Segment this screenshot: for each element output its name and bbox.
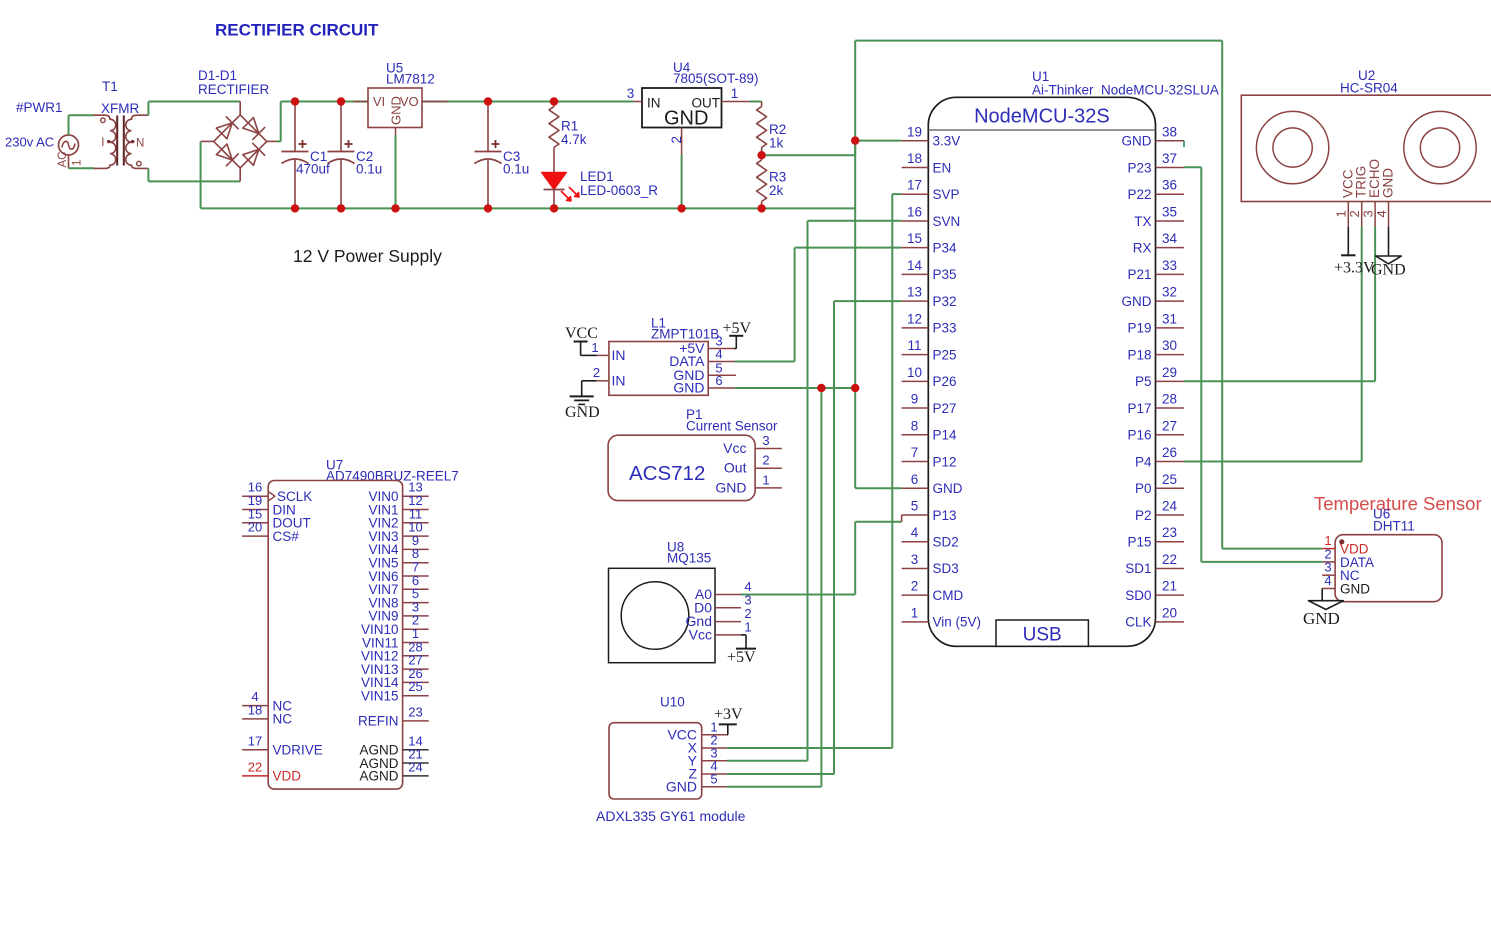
svg-text:P19: P19 (1127, 321, 1151, 336)
U1 pin 34 (RX) (1133, 231, 1184, 255)
U7 pin 22 (VDD) (242, 759, 301, 783)
svg-text:U10: U10 (660, 695, 685, 710)
wire: bridge output+ to top rail (277, 102, 295, 142)
svg-text:GND: GND (1371, 262, 1406, 279)
junction LED1 bottom (550, 204, 558, 212)
svg-text:22: 22 (1162, 552, 1177, 567)
svg-text:3: 3 (911, 552, 919, 567)
svg-text:22: 22 (248, 759, 262, 774)
temperature sensor U6 DHT11 labels (1373, 507, 1415, 534)
svg-text:16: 16 (907, 204, 922, 219)
svg-text:2k: 2k (769, 183, 784, 198)
svg-text:P4: P4 (1135, 454, 1152, 469)
junction C3 bottom (484, 204, 492, 212)
svg-text:P33: P33 (933, 321, 957, 336)
svg-text:XFMR: XFMR (101, 101, 139, 116)
svg-text:GND: GND (715, 479, 746, 495)
U1 pin 27 (P16) (1127, 418, 1184, 442)
wire: U10 Z to U1 P32 (pin13) (727, 301, 902, 774)
transformer T1 labels (101, 79, 139, 116)
gas sensor U8 MQ135 (609, 568, 752, 662)
U7 pin 15 (DOUT) (242, 506, 311, 530)
U1 pin 38 (GND) (1122, 124, 1185, 148)
U7 pin 10 (VIN3) (368, 520, 428, 544)
U7 pin 16 (SCLK) (242, 480, 312, 504)
svg-text:I: I (101, 137, 104, 149)
ADC U7 AD7490BRUZ-REEL7 labels (326, 458, 459, 484)
U7 pin 4 (NC) (242, 689, 292, 713)
junction U4 GND (677, 204, 685, 212)
svg-text:Vcc: Vcc (723, 440, 746, 456)
svg-text:4: 4 (1374, 210, 1389, 217)
svg-text:2: 2 (669, 136, 684, 144)
wire: U1 P23 (pin37) to DHT11 DATA (1184, 167, 1322, 562)
U1 pin 24 (P2) (1135, 498, 1184, 522)
U1 pin 31 (P19) (1127, 311, 1184, 335)
svg-text:25: 25 (1162, 472, 1177, 487)
wire: U5 GND to ground rail (395, 135, 397, 208)
wire: L1 GND pin6 net (735, 387, 856, 389)
svg-text:#PWR1: #PWR1 (16, 100, 63, 115)
svg-text:6: 6 (715, 373, 722, 388)
accelerometer U10 ADXL335 (609, 719, 727, 799)
U7 pin 24 (AGND) (359, 759, 428, 783)
wire: long vertical x=855 (3.3V top feed down to GND pin6) (854, 41, 856, 487)
U7 pin 18 (NC) (242, 702, 292, 726)
power symbol +5V at L1 pin3 (723, 320, 752, 349)
U7 pin 23 (REFIN) (358, 704, 429, 728)
U1 pin 7 (P12) (902, 445, 957, 469)
svg-text:RECTIFIER CIRCUIT: RECTIFIER CIRCUIT (215, 21, 379, 40)
svg-text:VI: VI (373, 94, 385, 109)
temperature sensor U6 DHT11 (1322, 533, 1442, 602)
resistor R1 4.7k (549, 102, 587, 173)
junction C1 top (291, 97, 299, 105)
svg-text:27: 27 (1162, 418, 1177, 433)
svg-text:8: 8 (911, 418, 919, 433)
svg-text:IN: IN (647, 96, 661, 111)
svg-text:RX: RX (1133, 240, 1152, 255)
svg-text:470uf: 470uf (296, 162, 330, 177)
junction GND net x855 (851, 384, 859, 392)
svg-text:CS#: CS# (273, 529, 300, 544)
U1 pin 20 (CLK) (1125, 605, 1184, 629)
svg-text:P22: P22 (1127, 187, 1151, 202)
accelerometer U10 labels (596, 695, 746, 825)
svg-text:32: 32 (1162, 285, 1177, 300)
U7 pin 13 (VIN0) (368, 480, 428, 504)
svg-text:GND: GND (1381, 168, 1396, 198)
current sensor P1 ACS712 (608, 433, 782, 501)
svg-text:P34: P34 (933, 240, 958, 255)
U1 pin 23 (P15) (1127, 525, 1184, 549)
svg-text:T1: T1 (102, 79, 118, 94)
wire: C2 to U5 VI (341, 101, 354, 103)
svg-text:RECTIFIER: RECTIFIER (198, 82, 270, 97)
U1 pin 21 (SD0) (1125, 579, 1184, 603)
svg-text:24: 24 (408, 759, 422, 774)
svg-text:4: 4 (715, 347, 722, 362)
LED LED1 LED-0603_R (542, 169, 659, 208)
bridge rectifier D1-D1 (diode bridge) (201, 102, 277, 182)
svg-text:GND: GND (1122, 134, 1152, 149)
svg-text:28: 28 (1162, 392, 1177, 407)
gas sensor U8 MQ135 labels (667, 540, 711, 566)
U1 pin 1 (Vin (5V)) (902, 605, 981, 629)
capacitor C1 470uf (282, 102, 331, 209)
svg-text:4.7k: 4.7k (561, 132, 587, 147)
regulator U4 7805(SOT-89) labels (673, 60, 759, 86)
svg-text:37: 37 (1162, 151, 1177, 166)
svg-text:GND: GND (1303, 609, 1340, 628)
svg-text:34: 34 (1162, 231, 1178, 246)
svg-text:TX: TX (1134, 214, 1151, 229)
svg-text:7805(SOT-89): 7805(SOT-89) (673, 71, 759, 86)
capacitor C3 0.1u (475, 102, 530, 209)
svg-text:P21: P21 (1127, 267, 1151, 282)
wire: U10 GND to L1 GND net (727, 388, 821, 787)
regulator U5 LM7812 labels (386, 61, 435, 87)
svg-text:P35: P35 (933, 267, 957, 282)
U7 pin 11 (VIN2) (368, 506, 428, 530)
ultrasonic sensor U2 HC-SR04 (1241, 95, 1491, 227)
svg-text:1k: 1k (769, 136, 784, 151)
svg-text:GND: GND (673, 380, 704, 396)
MCU U1 NodeMCU-32S body (928, 97, 1155, 646)
svg-text:P12: P12 (933, 454, 957, 469)
svg-text:P14: P14 (933, 428, 958, 443)
junction C3 top (484, 97, 492, 105)
svg-text:P17: P17 (1127, 401, 1151, 416)
power symbol +3V at U10 VCC (714, 706, 743, 735)
svg-text:P23: P23 (1127, 160, 1151, 175)
svg-text:11: 11 (907, 338, 921, 353)
wire: U1 P4 (pin26) to HC-SR04 TRIG (1184, 227, 1362, 462)
svg-text:17: 17 (248, 733, 262, 748)
U7 pin 27 (VIN13) (361, 653, 429, 677)
wire: GND pin6 of U1 (855, 487, 901, 489)
wire: U4 OUT to R2 (750, 101, 762, 103)
svg-text:Vin (5V): Vin (5V) (933, 615, 982, 630)
svg-text:15: 15 (907, 231, 922, 246)
svg-text:6: 6 (911, 472, 919, 487)
U7 pin 21 (AGND) (359, 747, 428, 771)
svg-text:EN: EN (933, 160, 952, 175)
svg-text:26: 26 (1162, 445, 1177, 460)
ultrasonic sensor U2 HC-SR04 labels (1340, 68, 1398, 96)
U7 pin 1 (VIN11) (362, 626, 429, 650)
svg-text:+5V: +5V (727, 649, 756, 666)
wire: U10 Y to U1 SVN (pin16) (727, 221, 902, 761)
svg-text:P2: P2 (1135, 508, 1152, 523)
wire: 3.3V pin19 of U1 (855, 140, 901, 142)
wire: AC bottom to T1 primary bottom (69, 167, 95, 169)
U1 pin 19 (3.3V) (902, 124, 961, 148)
svg-text:3: 3 (762, 433, 769, 448)
svg-text:MQ135: MQ135 (667, 551, 711, 566)
svg-text:33: 33 (1162, 258, 1177, 273)
junction C2 bottom (337, 204, 345, 212)
U1 pin 2 (CMD) (902, 579, 964, 603)
U7 pin 6 (VIN7) (368, 573, 428, 597)
svg-text:GND: GND (1122, 294, 1152, 309)
U1 pin 25 (P0) (1135, 472, 1184, 496)
wire: T1 secondary bottom to bridge bottom (148, 168, 240, 181)
svg-text:CMD: CMD (933, 588, 964, 603)
wire: U10 X to U1 SVP (pin17) (727, 194, 902, 748)
wire: U8 A0 to U1 P13 (pin5) (741, 515, 902, 595)
svg-text:1: 1 (731, 86, 739, 101)
U7 pin 25 (VIN15) (361, 679, 429, 703)
U1 pin 22 (SD1) (1125, 552, 1184, 576)
U1 pin 28 (P17) (1127, 392, 1184, 416)
svg-text:LM7812: LM7812 (386, 72, 435, 87)
AC source PWR1 (circle with sine) (57, 135, 84, 168)
svg-text:17: 17 (907, 178, 922, 193)
svg-text:D1-D1: D1-D1 (198, 68, 237, 83)
svg-text:38: 38 (1162, 124, 1177, 139)
svg-text:3.3V: 3.3V (933, 134, 961, 149)
svg-text:P27: P27 (933, 401, 957, 416)
U7 pin 2 (VIN10) (361, 613, 429, 637)
power symbol VCC at L1 pin1 (565, 325, 598, 355)
voltage sensor L1 ZMPT101B (591, 334, 736, 396)
svg-text:HC-SR04: HC-SR04 (1340, 81, 1398, 96)
svg-text:4: 4 (1324, 573, 1331, 588)
svg-text:P25: P25 (933, 347, 957, 362)
svg-text:1: 1 (911, 605, 919, 620)
U1 pin 12 (P33) (902, 311, 957, 335)
U1 pin 4 (SD2) (902, 525, 959, 549)
svg-text:SVN: SVN (933, 214, 961, 229)
svg-text:VCC: VCC (565, 325, 598, 342)
svg-text:0.1u: 0.1u (503, 162, 529, 177)
power symbol +5V at U8 Vcc (727, 635, 756, 666)
svg-text:20: 20 (1162, 605, 1177, 620)
U7 pin 19 (DIN) (242, 493, 296, 517)
U7 pin 14 (AGND) (359, 733, 428, 757)
U1 pin 37 (P23) (1127, 151, 1184, 175)
title: Temperature Sensor (1314, 493, 1482, 514)
U1 pin 13 (P32) (902, 285, 957, 309)
wire: top feed to DHT11 VDD (via x=1222) (855, 41, 1322, 549)
svg-text:3: 3 (627, 86, 635, 101)
svg-text:0.1u: 0.1u (356, 162, 382, 177)
svg-text:230v AC: 230v AC (5, 135, 54, 150)
svg-text:23: 23 (408, 704, 422, 719)
U1 pin 35 (TX) (1134, 204, 1184, 228)
ground symbol GND at L1 pin2 (565, 381, 600, 421)
svg-text:4: 4 (911, 525, 919, 540)
U1 pin 29 (P5) (1135, 365, 1184, 389)
power symbol +3.3V at U2 VCC (1334, 227, 1375, 277)
svg-text:VIN15: VIN15 (361, 689, 399, 704)
svg-text:GND: GND (933, 481, 963, 496)
U7 pin 28 (VIN12) (361, 639, 429, 663)
title: RECTIFIER CIRCUIT (215, 21, 379, 40)
svg-text:19: 19 (907, 124, 922, 139)
svg-text:GND: GND (389, 96, 404, 125)
junction GND net x821 (817, 384, 825, 392)
svg-text:GND: GND (1340, 581, 1370, 596)
svg-text:NodeMCU-32S: NodeMCU-32S (974, 106, 1110, 128)
U1 pin 14 (P35) (902, 258, 957, 282)
svg-text:GND: GND (565, 404, 600, 421)
wire: T1 secondary top to top rail (148, 102, 240, 116)
U7 pin 17 (VDRIVE) (242, 733, 323, 757)
svg-text:14: 14 (907, 258, 923, 273)
transformer T1 XFMR (94, 115, 149, 168)
title: 12 V Power Supply (293, 246, 442, 266)
svg-text:P5: P5 (1135, 374, 1152, 389)
wire: bridge output- down to ground rail (201, 141, 295, 208)
capacitor C2 0.1u (328, 102, 383, 209)
U1 pin 18 (EN) (902, 151, 952, 175)
voltage sensor L1 ZMPT101B labels (651, 316, 719, 342)
svg-text:35: 35 (1162, 204, 1177, 219)
U1 pin 33 (P21) (1127, 258, 1184, 282)
svg-text:1: 1 (762, 472, 769, 487)
U7 pin 5 (VIN8) (368, 586, 428, 610)
svg-text:18: 18 (248, 702, 262, 717)
U1 pin 10 (P26) (902, 365, 957, 389)
U1 pin 16 (SVN) (902, 204, 961, 228)
svg-text:DHT11: DHT11 (1373, 519, 1415, 534)
svg-text:P18: P18 (1127, 347, 1151, 362)
svg-text:1: 1 (744, 619, 751, 634)
svg-text:Ai-Thinker_NodeMCU-32SLUA: Ai-Thinker_NodeMCU-32SLUA (1032, 83, 1219, 98)
svg-text:VDD: VDD (273, 769, 302, 784)
MCU U1 Ai-Thinker_NodeMCU-32SLUA labels (1032, 69, 1219, 98)
svg-text:2: 2 (911, 579, 919, 594)
svg-text:24: 24 (1162, 498, 1178, 513)
U7 pin 7 (VIN6) (368, 560, 428, 584)
svg-text:18: 18 (907, 151, 922, 166)
svg-text:2: 2 (762, 453, 769, 468)
svg-text:P26: P26 (933, 374, 957, 389)
svg-text:23: 23 (1162, 525, 1177, 540)
power source #PWR1 labels (5, 100, 63, 150)
wire: +12V top rail (295, 101, 634, 103)
U7 pin 12 (VIN1) (368, 493, 428, 517)
junction 3.3V pin19 (851, 136, 859, 144)
svg-text:IN: IN (612, 347, 626, 363)
wire: AC top to T1 primary top (69, 115, 95, 135)
svg-text:29: 29 (1162, 365, 1177, 380)
svg-text:5: 5 (710, 771, 717, 786)
wire: R2/R3 junction to 3.3V vertical (762, 141, 856, 156)
regulator U4 7805(SOT-89) (627, 86, 750, 155)
svg-text:P16: P16 (1127, 428, 1151, 443)
svg-text:2: 2 (593, 365, 600, 380)
U7 pin 26 (VIN14) (361, 666, 429, 690)
svg-text:36: 36 (1162, 178, 1177, 193)
U1 pin 8 (P14) (902, 418, 957, 442)
U1 pin 9 (P27) (902, 392, 957, 416)
svg-text:SD2: SD2 (933, 535, 959, 550)
svg-text:20: 20 (248, 520, 262, 535)
svg-text:P32: P32 (933, 294, 957, 309)
U1 pin 32 (GND) (1122, 285, 1185, 309)
U1 pin 17 (SVP) (902, 178, 960, 202)
current sensor P1 ACS712 labels (686, 407, 778, 434)
svg-text:P15: P15 (1127, 535, 1151, 550)
svg-text:GND: GND (664, 108, 708, 130)
svg-text:VDRIVE: VDRIVE (273, 743, 323, 758)
svg-text:SD1: SD1 (1125, 561, 1151, 576)
svg-text:21: 21 (1162, 579, 1177, 594)
svg-text:AGND: AGND (359, 769, 398, 784)
svg-text:12: 12 (907, 311, 922, 326)
U7 pin 8 (VIN5) (368, 546, 428, 570)
svg-text:P13: P13 (933, 508, 957, 523)
svg-text:7: 7 (911, 445, 919, 460)
svg-text:SVP: SVP (933, 187, 960, 202)
svg-text:9: 9 (911, 392, 919, 407)
svg-text:10: 10 (907, 365, 922, 380)
ADC U7 AD7490BRUZ-REEL7 body (268, 481, 402, 790)
svg-text:GND: GND (666, 778, 697, 794)
svg-text:13: 13 (907, 285, 922, 300)
junction R3 bottom (757, 204, 765, 212)
svg-text:LED1: LED1 (580, 169, 614, 184)
svg-text:AC: AC (57, 152, 69, 168)
svg-text:IN: IN (612, 373, 626, 389)
svg-text:P0: P0 (1135, 481, 1152, 496)
U7 pin 20 (CS#) (242, 520, 299, 544)
U1 pin 26 (P4) (1135, 445, 1184, 469)
svg-text:NC: NC (273, 712, 293, 727)
ground symbol GND at U6 GND pin (1303, 589, 1343, 629)
svg-text:5: 5 (911, 498, 919, 513)
junction C2 top (337, 97, 345, 105)
wire: U1 P5 (pin29) to HC-SR04 ECHO (1184, 227, 1375, 381)
U1 pin 15 (P34) (902, 231, 957, 255)
svg-text:Temperature Sensor: Temperature Sensor (1314, 493, 1482, 514)
svg-text:1: 1 (591, 340, 598, 355)
resistor R2 1k (757, 102, 787, 156)
svg-text:CLK: CLK (1125, 615, 1151, 630)
junction R2/R3 node (757, 151, 765, 159)
ground symbol GND at U2 GND pin (1371, 227, 1406, 279)
svg-text:USB: USB (1023, 625, 1062, 646)
svg-text:ACS712: ACS712 (629, 462, 705, 485)
U1 pin 6 (GND) (902, 472, 963, 496)
svg-text:1: 1 (72, 160, 84, 166)
svg-text:ADXL335 GY61 module: ADXL335 GY61 module (596, 808, 746, 824)
wire: L1 DATA to U1 P34 (735, 248, 902, 362)
svg-text:+5V: +5V (723, 320, 752, 337)
U1 pin 11 (P25) (902, 338, 957, 362)
svg-text:Vcc: Vcc (689, 626, 712, 642)
regulator U5 LM7812 (354, 88, 448, 135)
svg-text:+3.3V: +3.3V (1334, 260, 1375, 277)
U1 pin 5 (P13) (902, 498, 957, 522)
U7 pin 3 (VIN9) (368, 599, 428, 623)
wire: U4 GND pin2 to ground rail (681, 155, 683, 208)
svg-text:31: 31 (1162, 311, 1177, 326)
junction U5 GND (391, 204, 399, 212)
svg-text:Out: Out (724, 460, 747, 476)
wire: ground rail (295, 207, 855, 209)
svg-text:Current Sensor: Current Sensor (686, 419, 778, 434)
svg-text:LED-0603_R: LED-0603_R (580, 183, 658, 198)
U1 pin 3 (SD3) (902, 552, 959, 576)
svg-text:25: 25 (408, 679, 422, 694)
U1 pin 36 (P22) (1127, 178, 1184, 202)
junction C1 bottom (291, 204, 299, 212)
svg-text:SD3: SD3 (933, 561, 959, 576)
